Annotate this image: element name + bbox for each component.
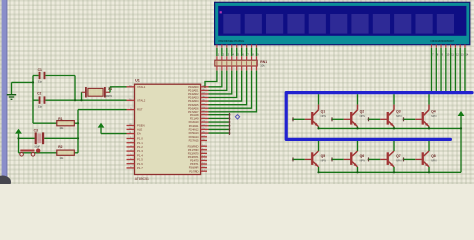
Q5 reference label bbox=[321, 154, 326, 158]
svg-text:P2.3/A11: P2.3/A11 bbox=[189, 124, 199, 128]
svg-text:24MHz: 24MHz bbox=[105, 95, 113, 98]
svg-text:P3.0/RXD: P3.0/RXD bbox=[188, 144, 199, 148]
svg-text:P2.0/A8: P2.0/A8 bbox=[190, 113, 199, 117]
U1 reference label bbox=[135, 78, 140, 82]
wire RN1 pin 4 to P0.2 bbox=[209, 71, 232, 94]
svg-text:NPN: NPN bbox=[360, 159, 365, 162]
svg-text:P2.5/A13: P2.5/A13 bbox=[189, 131, 199, 135]
wire RN1 pin 2 to P0.0 bbox=[209, 71, 222, 87]
svg-text:13: 13 bbox=[461, 54, 464, 57]
U1 right pin numbers bbox=[202, 85, 205, 171]
svg-text:P0.1/AD1: P0.1/AD1 bbox=[188, 88, 199, 92]
svg-text:P3.3/INT1: P3.3/INT1 bbox=[188, 155, 199, 159]
svg-text:XTAL2: XTAL2 bbox=[137, 98, 146, 102]
svg-text:P1.7: P1.7 bbox=[137, 166, 143, 170]
transistor Q5 bbox=[292, 141, 320, 173]
svg-text:P3.5/T1: P3.5/T1 bbox=[190, 162, 199, 166]
svg-text:P0.5/AD5: P0.5/AD5 bbox=[188, 103, 199, 107]
svg-text:P3.6/WR: P3.6/WR bbox=[189, 166, 199, 170]
LCD left pin stubs and wires to RN1 bbox=[217, 45, 257, 61]
U1 right pin stubs bbox=[201, 87, 209, 171]
U1 right pin labels bbox=[188, 85, 199, 173]
Q2 reference label bbox=[360, 109, 365, 113]
U1 left pin labels bbox=[137, 85, 146, 170]
C1 reference label bbox=[38, 68, 42, 72]
svg-text:P2.6/A14: P2.6/A14 bbox=[189, 135, 199, 139]
svg-text:5: 5 bbox=[238, 53, 240, 57]
svg-text:NPN: NPN bbox=[396, 115, 401, 118]
svg-text:10k: 10k bbox=[260, 64, 265, 68]
resistor R2 bbox=[57, 150, 75, 155]
capacitor C2 bbox=[33, 96, 127, 103]
transistor Q7 bbox=[368, 141, 396, 173]
svg-text:NPN: NPN bbox=[321, 159, 326, 162]
svg-text:33p: 33p bbox=[38, 105, 43, 108]
LCD left pin numbers 1-9 bbox=[218, 53, 260, 57]
svg-text:D0D1D2D3D4D5D6D7: D0D1D2D3D4D5D6D7 bbox=[431, 39, 455, 43]
LCD pin name strip right (D4 D5 D6 D7) bbox=[431, 39, 455, 43]
transistor Q4 bbox=[403, 94, 431, 129]
svg-text:P2.7/A15: P2.7/A15 bbox=[189, 139, 199, 143]
Q6 reference label bbox=[360, 154, 365, 158]
Q1 reference label bbox=[321, 109, 326, 113]
svg-text:P3.7/RD: P3.7/RD bbox=[189, 169, 198, 173]
wire bottom emitter rail bbox=[319, 171, 462, 173]
wire RN1 pin 7 to P0.5 bbox=[209, 71, 247, 105]
svg-text:Q4: Q4 bbox=[431, 109, 436, 113]
svg-text:33p: 33p bbox=[38, 81, 43, 84]
X1 value label bbox=[105, 95, 113, 98]
wire RN1 pin 8 to P0.6 bbox=[209, 71, 252, 109]
svg-text:P2.2/A10: P2.2/A10 bbox=[189, 120, 199, 124]
svg-text:4: 4 bbox=[233, 53, 235, 57]
svg-text:7: 7 bbox=[432, 54, 434, 57]
svg-text:RST: RST bbox=[137, 108, 143, 112]
transistor Q2 bbox=[331, 94, 359, 129]
svg-text:2: 2 bbox=[223, 53, 225, 57]
Q4 reference label bbox=[431, 109, 436, 113]
svg-text:XTAL1: XTAL1 bbox=[137, 85, 146, 89]
power arrow VCC (reset) bbox=[15, 129, 22, 153]
svg-text:C2: C2 bbox=[37, 92, 41, 96]
transistor Q6 bbox=[331, 141, 359, 173]
C3 value label bbox=[34, 146, 40, 149]
svg-text:R1: R1 bbox=[58, 117, 62, 121]
capacitor C3 (reset) bbox=[19, 132, 79, 144]
wire top emitter rail bbox=[319, 127, 462, 129]
svg-text:14: 14 bbox=[466, 54, 469, 57]
Q7 reference label bbox=[396, 154, 401, 158]
Q3 value label NPN bbox=[396, 115, 401, 118]
Q1 value label NPN bbox=[321, 115, 326, 118]
svg-text:P2.4/A12: P2.4/A12 bbox=[189, 128, 199, 132]
svg-text:NPN: NPN bbox=[321, 115, 326, 118]
svg-text:RN1: RN1 bbox=[260, 60, 267, 64]
wires P2.0-P2.5 with net label terminals bbox=[209, 113, 231, 135]
svg-text:3: 3 bbox=[228, 53, 230, 57]
R1 value label bbox=[59, 127, 64, 130]
svg-text:EA: EA bbox=[137, 132, 141, 136]
svg-text:Q7: Q7 bbox=[396, 154, 401, 158]
ground symbol (crystal caps) bbox=[7, 82, 16, 99]
RN1 reference label bbox=[260, 60, 267, 64]
wire RST bbox=[78, 109, 127, 111]
svg-text:P3.1/TXD: P3.1/TXD bbox=[188, 148, 199, 152]
C2 reference label bbox=[37, 92, 41, 96]
microcontroller U1 AT89C51 body bbox=[135, 84, 201, 174]
LCD pin name strip left (VSS VDD VEE RS RW E D0 D1) bbox=[218, 39, 244, 43]
svg-text:11: 11 bbox=[451, 54, 454, 57]
svg-text:1: 1 bbox=[218, 53, 220, 57]
svg-text:NPN: NPN bbox=[360, 115, 365, 118]
svg-text:Q6: Q6 bbox=[360, 154, 365, 158]
svg-text:P0.6/AD6: P0.6/AD6 bbox=[188, 106, 199, 110]
Q5 value label NPN bbox=[321, 159, 326, 162]
svg-text:P0.0/AD0: P0.0/AD0 bbox=[188, 85, 199, 89]
RN1 value label bbox=[260, 64, 265, 68]
svg-text:Q5: Q5 bbox=[321, 154, 326, 158]
node wire C1/C2/R1 left vertical bbox=[32, 76, 34, 124]
wire ground to cap node bbox=[12, 81, 34, 83]
svg-text:Q1: Q1 bbox=[321, 109, 326, 113]
transistor Q1 bbox=[292, 94, 320, 129]
crystal X1 bbox=[80, 87, 110, 101]
wire RN1 pin 5 to P0.3 bbox=[209, 71, 237, 98]
wire RN1 pin 1 to P0.0 bbox=[204, 71, 217, 88]
Q2 value label NPN bbox=[360, 115, 365, 118]
wire VCC to EA bbox=[101, 133, 127, 135]
Q7 value label NPN bbox=[396, 159, 401, 162]
svg-text:10: 10 bbox=[446, 54, 449, 57]
svg-text:X1: X1 bbox=[108, 87, 112, 91]
svg-text:Q2: Q2 bbox=[360, 109, 365, 113]
svg-text:10k: 10k bbox=[59, 157, 64, 160]
C1 value label bbox=[38, 81, 43, 84]
X1 reference label bbox=[108, 87, 112, 91]
svg-text:NPN: NPN bbox=[396, 159, 401, 162]
C3 reference label bbox=[34, 129, 38, 133]
sheet border bar (left window edge) bbox=[2, 0, 8, 184]
svg-text:9: 9 bbox=[442, 54, 444, 57]
svg-text:Q8: Q8 bbox=[431, 154, 436, 158]
svg-text:R2: R2 bbox=[58, 145, 62, 149]
wire C1 right to XTAL2 net bbox=[74, 76, 76, 102]
svg-text:P3.4/T0: P3.4/T0 bbox=[190, 159, 199, 163]
svg-text:9: 9 bbox=[257, 53, 259, 57]
LCD right data pin stubs and wires D0-D7 to bus bbox=[432, 45, 465, 92]
power arrow VCC (EA pin) bbox=[98, 123, 105, 134]
svg-text:P2.1/A9: P2.1/A9 bbox=[190, 116, 199, 120]
Q8 value label NPN bbox=[431, 159, 436, 162]
svg-text:P3.2/INT0: P3.2/INT0 bbox=[188, 151, 199, 155]
wire RN1 pin 3 to P0.1 bbox=[209, 71, 227, 91]
U1 left pin stubs bbox=[127, 87, 135, 168]
svg-text:10uF: 10uF bbox=[34, 146, 40, 149]
node wire RST vertical (R1/R2/C3 right) bbox=[77, 110, 79, 153]
svg-text:U1: U1 bbox=[135, 78, 140, 82]
Q6 value label NPN bbox=[360, 159, 365, 162]
Q4 value label NPN bbox=[431, 115, 436, 118]
C2 value label bbox=[38, 105, 43, 108]
window corner artifact bottom-left bbox=[0, 176, 11, 189]
Q3 reference label bbox=[396, 109, 401, 113]
svg-text:12: 12 bbox=[456, 54, 459, 57]
LCD character blocks bbox=[223, 14, 454, 34]
wire reset bottom rail bbox=[19, 152, 79, 154]
LCD cursor dot bbox=[220, 11, 222, 13]
wire RN1 pin 6 to P0.4 bbox=[209, 71, 242, 101]
svg-text:6: 6 bbox=[242, 53, 244, 57]
svg-text:P0.4/AD4: P0.4/AD4 bbox=[188, 99, 199, 103]
svg-text:7: 7 bbox=[247, 53, 249, 57]
transistor Q3 bbox=[368, 94, 396, 129]
capacitor C1 bbox=[33, 72, 75, 79]
wire XTAL1 bbox=[110, 86, 127, 88]
bus (LCD data / driver rows) bbox=[286, 93, 472, 140]
svg-text:C3: C3 bbox=[34, 129, 38, 133]
R2 reference label bbox=[58, 145, 62, 149]
R1 reference label bbox=[58, 117, 62, 121]
svg-text:Q3: Q3 bbox=[396, 109, 401, 113]
resistor network RN1 bbox=[215, 60, 257, 66]
svg-text:VSSVDDVEE RS RW E: VSSVDDVEE RS RW E bbox=[218, 39, 244, 43]
reset push button bbox=[20, 149, 41, 157]
R2 value label bbox=[59, 157, 64, 160]
svg-text:AT89C51: AT89C51 bbox=[135, 177, 149, 181]
svg-text:P0.3/AD3: P0.3/AD3 bbox=[188, 96, 199, 100]
svg-text:NPN: NPN bbox=[431, 115, 436, 118]
Q8 reference label bbox=[431, 154, 436, 158]
svg-text:C1: C1 bbox=[38, 68, 42, 72]
resistor R1 bbox=[33, 121, 78, 126]
svg-text:NPN: NPN bbox=[431, 159, 436, 162]
U1 left pin numbers bbox=[129, 85, 132, 168]
transistor Q8 bbox=[403, 141, 431, 173]
wire RN1 pin 9 to P0.7 bbox=[209, 71, 257, 112]
U1 part value AT89C51 bbox=[135, 177, 149, 181]
svg-text:8: 8 bbox=[437, 54, 439, 57]
LCD display LCD1 bbox=[215, 2, 470, 44]
power arrow VCC (driver rails) bbox=[458, 111, 465, 172]
origin marker (blue diamond) bbox=[235, 115, 239, 119]
svg-text:10k: 10k bbox=[59, 127, 64, 130]
svg-text:P0.2/AD2: P0.2/AD2 bbox=[188, 92, 199, 96]
RN1 bottom pin stubs bbox=[217, 66, 257, 71]
svg-text:8: 8 bbox=[252, 53, 254, 57]
LCD right pin numbers 7-14 bbox=[432, 54, 469, 57]
